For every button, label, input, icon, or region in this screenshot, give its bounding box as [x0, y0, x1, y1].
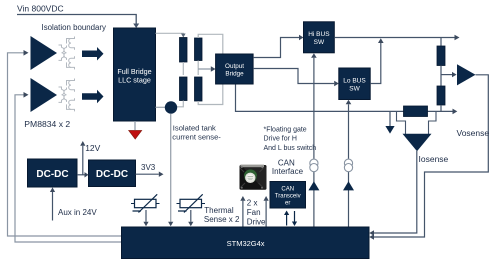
- capacitor tank leg1 upper: [180, 38, 188, 63]
- block Lo BUS SW: [339, 68, 370, 100]
- wire isolated current sense: [168, 114, 173, 227]
- svg-text:CAN: CAN: [278, 158, 295, 167]
- wire divider tap to Vosense amp: [441, 72, 457, 77]
- transformer isolation Lo: [344, 159, 352, 172]
- svg-text:Bridge: Bridge: [225, 70, 244, 77]
- wire gate drive Hi: [311, 53, 317, 227]
- svg-text:Sense x 2: Sense x 2: [204, 215, 240, 224]
- svg-text:Interface: Interface: [272, 167, 304, 176]
- transformer gate drive A: [59, 37, 75, 70]
- wire fan drive right: [264, 196, 269, 227]
- svg-text:Drive for H: Drive for H: [264, 136, 297, 143]
- svg-text:12V: 12V: [85, 143, 100, 153]
- svg-text:2 x: 2 x: [247, 198, 258, 207]
- svg-text:SW: SW: [314, 39, 325, 46]
- wire tank leg2 tap to output bridge: [198, 66, 215, 72]
- node Iosense label: [419, 154, 449, 164]
- transformer isolation Hi: [310, 159, 318, 172]
- svg-text:Lo BUS: Lo BUS: [343, 78, 366, 85]
- arrow red sense marker: [129, 131, 142, 140]
- wire Aux in: [50, 187, 55, 220]
- wire divider top: [440, 38, 442, 47]
- svg-text:SW: SW: [349, 86, 360, 93]
- svg-text:Isolation boundary: Isolation boundary: [42, 23, 107, 32]
- svg-text:CAN: CAN: [281, 187, 294, 193]
- svg-text:Vosense: Vosense: [457, 128, 490, 138]
- wire shunt kelvin left: [397, 111, 406, 134]
- wire low bus: [236, 85, 458, 115]
- node Vosense label: [457, 128, 490, 138]
- wire LLC to tank top: [156, 33, 186, 37]
- arrow gate drive Hi: [308, 181, 319, 190]
- svg-text:DC-DC: DC-DC: [96, 169, 128, 180]
- wire gate drive Lo: [346, 100, 352, 227]
- node 12V label: [85, 143, 100, 153]
- wire tank leg2 bottom to output bridge: [198, 85, 223, 105]
- natural-image fan photo: [240, 165, 267, 190]
- svg-text:Thermal: Thermal: [204, 206, 234, 215]
- node Aux in 24V label: [58, 208, 97, 217]
- resistor divider upper: [437, 46, 445, 66]
- block DC-DC second: [89, 160, 136, 187]
- wire LLC bottom stub: [134, 121, 136, 130]
- wire output bridge to Lo BUS SW: [253, 69, 339, 87]
- svg-text:current sense-: current sense-: [172, 132, 221, 141]
- node Floating gate note: [264, 126, 317, 152]
- arrow gate drive Lo: [343, 181, 354, 190]
- svg-text:Fan: Fan: [247, 208, 261, 217]
- wire Lo BUS SW to bus junction: [370, 38, 383, 83]
- svg-text:STM32G4x: STM32G4x: [227, 239, 265, 248]
- wire divider middle: [440, 66, 442, 87]
- wire LLC to tank node: [156, 106, 169, 108]
- wire tank leg1 mid: [182, 62, 184, 75]
- node tank junction: [165, 101, 177, 113]
- svg-text:And L bus switch: And L bus switch: [264, 145, 317, 152]
- node PM8834 x 2 label: [24, 119, 70, 129]
- op-amp Iosense: [403, 134, 432, 151]
- thermistor sense 1: [131, 194, 160, 226]
- wire Iosense amp to STM32: [369, 151, 417, 236]
- svg-text:*Floating gate: *Floating gate: [264, 126, 307, 133]
- inductor tank leg2 lower: [195, 77, 203, 101]
- block DC-DC first: [28, 159, 78, 187]
- wire 12V out: [80, 141, 85, 175]
- node Isolation boundary label: [42, 23, 107, 32]
- svg-text:LLC stage: LLC stage: [118, 76, 151, 85]
- wire fan drive left: [240, 196, 245, 227]
- wire CAN up: [284, 211, 289, 226]
- arrow PM8834 B to LLC: [82, 90, 104, 104]
- block Output Bridge: [216, 54, 254, 84]
- wire STM32 to PM8834 A: [8, 50, 122, 236]
- svg-text:Vin 800VDC: Vin 800VDC: [17, 4, 64, 14]
- svg-text:Output: Output: [225, 63, 244, 70]
- inductor tank leg1 lower: [180, 77, 188, 101]
- wire DC-DC link: [77, 172, 89, 177]
- node 2 x Fan Drive label: [247, 198, 266, 226]
- resistor divider lower: [437, 86, 445, 105]
- node 3V3 label: [141, 163, 156, 172]
- block Hi BUS SW: [304, 22, 335, 53]
- svg-text:er: er: [285, 201, 290, 207]
- wire output bridge to Hi BUS SW: [253, 35, 303, 58]
- node Vin 800VDC label: [17, 4, 64, 14]
- wire tank leg2 top to output bridge: [198, 34, 223, 53]
- svg-text:Aux in 24V: Aux in 24V: [58, 208, 97, 217]
- wire divider bottom: [440, 105, 442, 111]
- wire tank leg1 bottom to node: [171, 101, 183, 107]
- thermistor sense 2: [177, 194, 206, 226]
- op-amp PM8834 driver A: [31, 36, 58, 70]
- block Full Bridge LLC stage: [114, 28, 156, 121]
- svg-text:Drive: Drive: [247, 217, 266, 226]
- node Isolated tank current sense label: [172, 123, 221, 141]
- svg-text:DC-DC: DC-DC: [36, 169, 68, 180]
- transformer gate drive B: [59, 79, 75, 112]
- svg-text:3V3: 3V3: [141, 163, 156, 172]
- svg-text:PM8834 x 2: PM8834 x 2: [24, 119, 70, 129]
- node Thermal Sense x 2 label: [204, 206, 240, 224]
- svg-text:Iosense: Iosense: [419, 154, 449, 164]
- svg-text:Transceiv: Transceiv: [275, 194, 301, 200]
- arrow low bus tap: [385, 111, 394, 133]
- op-amp PM8834 driver B: [31, 78, 58, 112]
- wire 3V3 out: [136, 172, 164, 177]
- node CAN Interface label: [272, 158, 304, 176]
- block CAN transceiver: [270, 182, 306, 209]
- wire Vin to Full Bridge: [17, 15, 139, 29]
- capacitor tank leg2 upper: [195, 38, 203, 61]
- wire Hi BUS SW to output plus: [334, 35, 459, 41]
- svg-text:Hi BUS: Hi BUS: [308, 31, 330, 38]
- wire Vosense amp to STM32: [369, 75, 488, 240]
- block STM32G4x: [122, 227, 370, 259]
- svg-text:Isolated tank: Isolated tank: [173, 123, 216, 132]
- arrow PM8834 A to LLC: [82, 47, 104, 61]
- svg-text:Full Bridge: Full Bridge: [117, 67, 151, 76]
- wire STM32 to PM8834 B: [15, 92, 122, 242]
- wire CAN down: [292, 211, 297, 226]
- resistor shunt: [404, 106, 428, 117]
- wire shunt kelvin right: [429, 111, 437, 134]
- op-amp Vosense: [457, 64, 476, 85]
- wire tank leg2 mid: [197, 61, 199, 76]
